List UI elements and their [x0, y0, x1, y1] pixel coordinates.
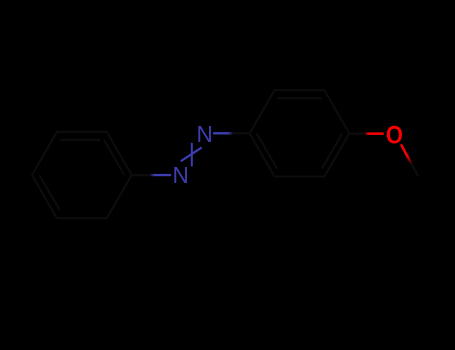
- benzene ring right (methoxyphenyl): [250, 90, 350, 176]
- bond C1-N1 carbon half (dark): [132, 174, 151, 176]
- bond O-CH3 carbon half (dark): [411, 163, 418, 176]
- bond O-CH3 oxygen half (red diagonal): [401, 144, 408, 157]
- benzene ring left (phenyl): [32, 132, 132, 218]
- N=N crossed double bond line 1 (vertical): [191, 143, 193, 167]
- bond N2-C1' carbon half (dark): [233, 132, 250, 134]
- bond C1-N1 nitrogen half fade: [149, 174, 155, 176]
- svg-text:N: N: [196, 121, 212, 147]
- svg-text:N: N: [172, 162, 188, 188]
- bond C4'-O fade: [364, 132, 369, 135]
- bond C4'-O carbon half (dark): [349, 133, 364, 135]
- bond C1-N1 nitrogen half (blue): [155, 174, 172, 176]
- atom label N1: [172, 162, 188, 188]
- inner Kekule lines right ring: [277, 97, 321, 99]
- bond N2-C1' nitrogen half (blue): [213, 132, 228, 134]
- bond C4'-O oxygen half (red): [369, 132, 384, 135]
- bond N2-C1' fade: [228, 132, 234, 134]
- atom label O (methoxy oxygen): [386, 122, 403, 150]
- inner Kekule lines left ring: [104, 140, 125, 175]
- N=N crossed double bond line 2 (diagonal): [181, 148, 202, 162]
- bond O-CH3 red fade tail: [407, 156, 412, 165]
- atom label N2: [196, 121, 212, 147]
